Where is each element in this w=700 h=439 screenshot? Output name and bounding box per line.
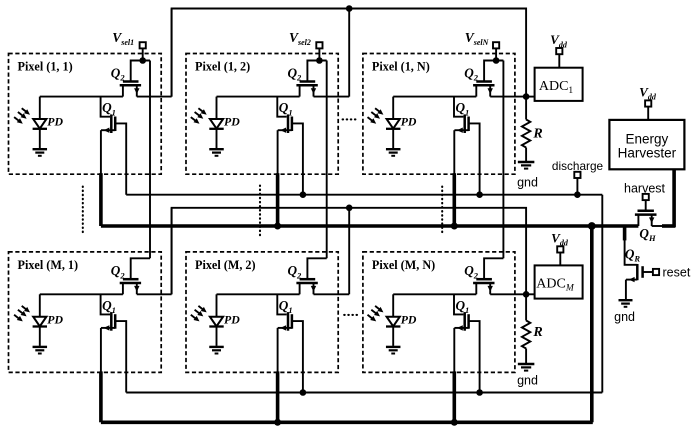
svg-text:discharge: discharge <box>552 159 604 173</box>
light arrows into PD of pixel (1,2) <box>198 108 203 112</box>
transistor Q2 of pixel (1,2) gate bar <box>300 80 316 83</box>
svg-text:Pixel (M, N): Pixel (M, N) <box>372 258 435 272</box>
wire ADC_M input lead <box>526 293 535 295</box>
ellipsis dots between rows col N <box>441 187 443 236</box>
terminal V_dd of ADC_M <box>557 246 563 252</box>
transistor Q1 of pixel (M,1) source lead <box>101 327 115 329</box>
op-amp U1 ADC1 box <box>535 68 583 101</box>
pixel (1,N) dashed box <box>363 54 515 175</box>
transistor Q2 of pixel (1,1) gate bar <box>123 80 139 83</box>
energy harvester box <box>609 120 684 169</box>
pixel (1,1) dashed box <box>9 54 162 175</box>
ground below R row 1 <box>518 161 535 163</box>
wire V_sel1 row-M gate jog <box>131 258 150 279</box>
pixel (M,2) dashed box <box>186 252 338 373</box>
transistor Q1 of pixel (1,N) gate bar <box>463 114 466 133</box>
wire ADC1 input lead <box>526 96 535 98</box>
transistor Q2 of pixel (1,N) drain lead <box>489 85 491 96</box>
ground below R row M <box>518 363 535 365</box>
svg-text:Pixel (M, 2): Pixel (M, 2) <box>195 258 256 272</box>
light arrows into PD of pixel (1,N) <box>375 108 380 112</box>
wire harvest riser <box>590 226 594 422</box>
transistor Q1 of pixel (1,N) gate wire <box>454 97 463 117</box>
svg-text:PD: PD <box>224 115 240 129</box>
node source bus row1 harvest riser <box>588 222 596 230</box>
wire V_selN lead <box>495 48 497 60</box>
node source bus row1 colN <box>451 223 458 230</box>
svg-text:Pixel (1, 1): Pixel (1, 1) <box>18 60 73 74</box>
ground of PD pixel (M,N) <box>386 346 401 348</box>
wire V_sel2 row-M gate jog <box>307 258 326 279</box>
transistor Q_H gate bar <box>638 210 654 213</box>
transistor Q2 of pixel (M,1) channel bar <box>120 282 141 285</box>
transistor Q2 of pixel (1,2) source lead <box>299 85 301 96</box>
transistor Q1 of pixel (M,N) drain lead <box>469 321 480 392</box>
transistor Q_R source lead <box>626 279 637 281</box>
svg-text:Energy: Energy <box>626 132 669 147</box>
transistor Q_H channel bar <box>635 213 657 216</box>
transistor Q1 of pixel (1,N) channel bar <box>467 117 470 132</box>
node ADC1 input junction <box>523 93 530 100</box>
svg-text:gnd: gnd <box>517 176 538 190</box>
node source bus rowM colN <box>451 419 458 426</box>
transistor Q2 of pixel (1,1) channel bar <box>120 84 141 87</box>
wire reset gate lead <box>643 271 653 273</box>
ellipsis dots between col2 and colN row M <box>344 314 358 316</box>
transistor Q2 of pixel (M,1) source lead <box>122 283 124 294</box>
wire row-M source bus (harvest net) <box>101 420 593 424</box>
wire output riser col 2 row M <box>348 208 350 294</box>
transistor Q1 of pixel (M,2) drain lead <box>292 321 303 392</box>
wire Q_H drain to harvester <box>652 225 663 227</box>
transistor Q1 of pixel (1,1) channel bar <box>114 117 117 132</box>
ground of PD pixel (M,2) <box>209 346 224 348</box>
transistor Q1 of pixel (M,1) drain lead <box>115 321 126 392</box>
wire PD node of pixel (M,1) <box>40 293 123 295</box>
wire PD node of pixel (1,N) <box>393 96 476 98</box>
transistor Q2 of pixel (M,2) source lead <box>299 283 301 294</box>
node ADC_M input junction <box>523 291 530 298</box>
wire V_sel2 lead <box>318 48 320 60</box>
transistor Q2 of pixel (M,N) gate bar <box>476 278 492 281</box>
terminal V_dd of ADC1 <box>556 48 562 54</box>
wire discharge bus row 1 <box>126 194 602 196</box>
wire V_sel1 lead <box>142 48 144 60</box>
transistor Q1 of pixel (1,1) drain lead <box>115 123 126 194</box>
transistor Q1 of pixel (M,2) channel bar <box>291 314 294 329</box>
node V_sel1 junction <box>139 57 146 64</box>
wire output riser col 1 row M <box>171 208 173 294</box>
node V_selN junction <box>493 57 500 64</box>
svg-text:R: R <box>532 127 542 142</box>
transistor Q1 of pixel (M,N) gate wire <box>454 294 463 314</box>
svg-text:PD: PD <box>47 312 63 326</box>
node V_sel2 junction <box>316 57 323 64</box>
wire V_selN to Q2 gate <box>484 61 503 82</box>
wire harvest gate lead <box>645 200 647 211</box>
ellipsis dots between rows col 2 <box>259 186 261 236</box>
wire row-1 output top bus <box>172 9 526 97</box>
node row-M drain bus colN <box>476 389 483 396</box>
terminal V_sel1 <box>140 42 146 48</box>
wire resistor R row1 to ground <box>525 148 527 162</box>
photodiode PD of pixel (M,1) <box>39 294 41 316</box>
light arrows into PD of pixel (M,2) <box>198 306 203 310</box>
wire V_dd to ADC_M <box>559 253 561 266</box>
wire V_sel2 to Q2 gate <box>307 61 326 82</box>
node top bus junction col 2 <box>346 5 353 12</box>
wire energy harvester drop <box>672 169 676 227</box>
terminal V_dd of energy harvester <box>645 100 651 106</box>
wire output riser col 2 row 1 <box>348 9 350 97</box>
wire Q2 output of pixel (M,1) <box>137 293 172 295</box>
node source bus rowM col2 <box>274 419 281 426</box>
svg-text:harvest: harvest <box>624 181 666 195</box>
svg-text:PD: PD <box>401 115 417 129</box>
wire Q2 output of pixel (M,N) <box>490 293 526 295</box>
wire junction to resistor R row M <box>525 294 527 320</box>
wire discharge connector vertical <box>601 195 603 393</box>
transistor Q1 of pixel (1,1) gate wire <box>101 97 110 117</box>
transistor Q1 of pixel (M,N) channel bar <box>467 314 470 329</box>
node row-M drain bus col2 <box>300 389 307 396</box>
svg-text:gnd: gnd <box>614 310 635 324</box>
transistor Q1 of pixel (1,2) drain lead <box>292 123 303 194</box>
photodiode PD of pixel (1,1) <box>39 97 41 119</box>
transistor Q1 of pixel (M,N) source lead <box>454 327 468 329</box>
light arrows into PD of pixel (M,N) <box>375 306 380 310</box>
transistor Q2 of pixel (1,N) gate bar <box>476 80 492 83</box>
transistor Q_H drain lead <box>651 215 653 226</box>
ground of Q_R <box>619 299 633 301</box>
resistor R row 1 <box>522 120 530 148</box>
wire row-1 source bus (harvest net) <box>101 224 639 228</box>
wire V_dd to ADC1 <box>558 54 560 67</box>
transistor Q1 of pixel (M,2) source lead <box>278 327 292 329</box>
terminal V_sel2 <box>316 42 322 48</box>
wire V_selN column line <box>502 61 504 259</box>
transistor Q_R gate bar <box>641 266 644 278</box>
ground of PD pixel (1,N) <box>386 148 401 150</box>
transistor Q2 of pixel (1,2) channel bar <box>296 84 317 87</box>
transistor Q2 of pixel (M,1) drain lead <box>136 283 138 294</box>
wire V_sel1 to Q2 gate <box>131 61 150 82</box>
wire Q2 output of pixel (1,2) <box>314 96 350 98</box>
svg-text:reset: reset <box>663 266 691 280</box>
node discharge tap <box>574 191 581 198</box>
photodiode PD of pixel (M,N) <box>392 294 394 316</box>
transistor Q1 of pixel (1,2) gate bar <box>287 114 290 133</box>
wire V_selN row-M gate jog <box>484 258 503 279</box>
transistor Q_H source lead <box>637 215 639 226</box>
transistor Q1 of pixel (1,N) source lead <box>454 129 468 131</box>
transistor Q1 of pixel (1,1) source lead <box>101 129 115 131</box>
ellipsis dots between rows col 1 <box>82 187 84 235</box>
transistor Q1 of pixel (M,1) gate bar <box>110 312 113 331</box>
terminal V_selN <box>493 42 499 48</box>
svg-text:Pixel (1, 2): Pixel (1, 2) <box>195 60 250 74</box>
ground of PD pixel (1,2) <box>209 148 224 150</box>
transistor Q1 of pixel (1,2) source lead <box>278 129 292 131</box>
wire Q2 output of pixel (1,N) <box>490 96 526 98</box>
wire discharge lead <box>576 178 578 195</box>
wire PD node of pixel (M,N) <box>393 293 476 295</box>
ground of PD pixel (M,1) <box>33 346 48 348</box>
transistor Q2 of pixel (1,N) channel bar <box>473 84 494 87</box>
wire V_sel1 column line <box>149 61 151 259</box>
transistor Q1 of pixel (1,1) gate bar <box>110 114 113 133</box>
photodiode PD of pixel (1,N) <box>392 97 394 119</box>
svg-text:R: R <box>532 325 542 340</box>
transistor Q1 of pixel (1,N) drain lead <box>469 123 480 194</box>
transistor Q1 of pixel (M,1) channel bar <box>114 314 117 329</box>
node row-M output bus junction col2 <box>346 205 353 212</box>
svg-text:PD: PD <box>401 312 417 326</box>
transistor Q1 of pixel (M,1) gate wire <box>101 294 110 314</box>
resistor R row M <box>522 321 530 349</box>
light arrows into PD of pixel (1,1) <box>22 108 27 112</box>
ground of PD pixel (1,1) <box>33 148 48 150</box>
pixel (1,2) dashed box <box>186 54 338 175</box>
transistor Q2 of pixel (M,1) gate bar <box>123 278 139 281</box>
transistor Q2 of pixel (1,2) drain lead <box>313 85 315 96</box>
wire resistor R rowM to ground <box>525 349 527 364</box>
photodiode PD of pixel (M,2) <box>216 294 218 316</box>
wire junction to resistor R row 1 <box>525 97 527 120</box>
light arrows into PD of pixel (M,1) <box>22 306 27 310</box>
svg-text:ADC1: ADC1 <box>539 79 574 96</box>
svg-text:Pixel (1, N): Pixel (1, N) <box>372 60 430 74</box>
wire output riser col 1 row 1 <box>171 9 173 97</box>
wire PD node of pixel (1,2) <box>217 96 300 98</box>
op-amp U2 ADC_M box <box>535 265 583 298</box>
node discharge bus colN <box>476 191 483 198</box>
ellipsis dots between col2 and colN row 1 <box>343 118 357 120</box>
pixel (M,1) dashed box <box>9 252 162 373</box>
transistor Q1 of pixel (1,2) gate wire <box>277 97 286 117</box>
transistor Q2 of pixel (1,1) source lead <box>122 85 124 96</box>
transistor Q2 of pixel (M,N) source lead <box>475 283 477 294</box>
transistor Q_R channel bar <box>636 264 639 280</box>
wire PD node of pixel (1,1) <box>40 96 123 98</box>
transistor Q1 of pixel (1,2) channel bar <box>291 117 294 132</box>
svg-text:gnd: gnd <box>517 374 538 388</box>
terminal reset <box>653 269 659 275</box>
transistor Q1 of pixel (M,N) gate bar <box>463 312 466 331</box>
transistor Q2 of pixel (1,N) source lead <box>475 85 477 96</box>
svg-text:PD: PD <box>224 312 240 326</box>
transistor Q1 of pixel (M,2) gate wire <box>277 294 286 314</box>
wire Q2 output of pixel (1,1) <box>137 96 172 98</box>
wire row-M drain bus <box>126 392 602 394</box>
transistor Q2 of pixel (M,2) gate bar <box>300 278 316 281</box>
svg-text:PD: PD <box>47 115 63 129</box>
svg-text:Pixel (M, 1): Pixel (M, 1) <box>18 258 79 272</box>
terminal harvest <box>643 194 649 200</box>
transistor Q2 of pixel (1,1) drain lead <box>136 85 138 96</box>
wire V_sel2 column line <box>326 61 328 259</box>
node discharge bus col2 <box>300 191 307 198</box>
node source bus row1 col2 <box>274 223 281 230</box>
transistor Q2 of pixel (M,N) drain lead <box>489 283 491 294</box>
photodiode PD of pixel (1,2) <box>216 97 218 119</box>
transistor Q2 of pixel (M,2) drain lead <box>313 283 315 294</box>
wire Q2 output of pixel (M,2) <box>314 293 350 295</box>
transistor Q2 of pixel (M,2) channel bar <box>296 282 317 285</box>
transistor Q2 of pixel (M,N) channel bar <box>473 282 494 285</box>
wire Q_R drain stub <box>623 226 627 240</box>
wire V_dd to energy harvester <box>647 107 649 120</box>
wire row-M output bus <box>172 208 526 294</box>
transistor Q1 of pixel (M,2) gate bar <box>287 312 290 331</box>
pixel (M,N) dashed box <box>363 252 515 373</box>
terminal discharge <box>574 172 580 178</box>
wire PD node of pixel (M,2) <box>217 293 300 295</box>
svg-text:Harvester: Harvester <box>618 145 677 160</box>
